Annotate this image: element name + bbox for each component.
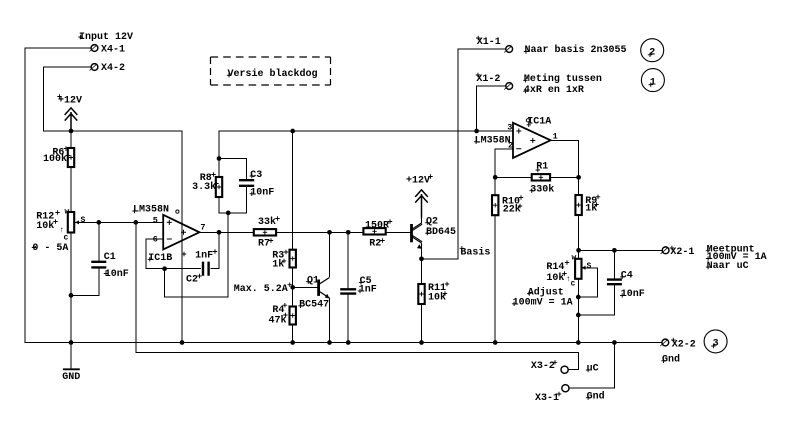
svg-text:Input 12V: Input 12V [79,32,133,43]
wire X4-2 to +12V rail [44,67,182,343]
svg-text:Naar uC: Naar uC [707,261,749,272]
capacitor C3 10nF [239,170,274,199]
transistor Q2 BD645 [412,217,457,249]
terminal X4-1 [90,45,126,56]
resistor R3 1k [272,250,296,271]
wire IC1A pin2 loop [495,149,513,177]
capacitor C1 10nF [91,252,128,280]
wire R11 branch [421,259,423,343]
op-amp IC1B LM358N [132,205,205,264]
dashed frame Versie blackdog [211,57,331,85]
wire R14 wiper loop [578,268,597,297]
svg-text:1k: 1k [272,259,284,271]
svg-text:Basis: Basis [460,247,490,259]
wire C5 branch [347,232,349,342]
capacitor C5 1nF [340,276,377,296]
svg-text:Adjust: Adjust [528,286,564,298]
svg-text:Meting tussen: Meting tussen [524,73,602,85]
svg-text:X4-1: X4-1 [101,45,125,56]
svg-text:330k: 330k [530,183,554,195]
svg-text:GND: GND [62,372,80,383]
wire R1 rail [495,176,578,178]
svg-text:c: c [571,280,576,289]
potentiometer R12 10k [36,208,85,243]
wire GND symbol stem [70,343,72,370]
wire R10 branch [494,177,496,342]
svg-text:10k: 10k [546,272,564,284]
svg-text:100k: 100k [43,153,67,165]
svg-text:X2-1: X2-1 [670,247,694,258]
svg-text:10k: 10k [36,220,54,232]
svg-text:Gnd: Gnd [587,390,605,402]
svg-text:IC1A: IC1A [527,116,551,127]
svg-text:10nF: 10nF [621,289,645,300]
resistor R1 330k [530,162,555,196]
svg-text:X3-2: X3-2 [531,361,555,372]
label Meting tussen 4xR en 1xR [523,73,602,96]
terminal X2-1 [661,246,695,258]
svg-text:R4: R4 [272,305,284,316]
label Basis [460,246,491,259]
op-amp IC1A LM358N [474,116,558,157]
wire R4 bottom [292,325,294,343]
wire Q1 emitter down [329,299,331,343]
svg-text:↑: ↑ [566,275,571,284]
capacitor C2 1nF [186,249,217,285]
wire R7 to R2 [276,231,363,233]
svg-text:3.3k: 3.3k [192,181,216,193]
resistor R9 1k [575,195,600,215]
svg-text:S: S [587,262,592,271]
svg-text:3: 3 [507,123,512,133]
svg-text:Versie blackdog: Versie blackdog [228,68,318,80]
wire R2 to Q2 base [386,231,411,233]
svg-text:C1: C1 [104,252,116,263]
label 0 - 5A [32,243,69,254]
label Input 12V [78,32,133,43]
label Adjust 100mV = 1A [512,286,573,308]
svg-text:10nF: 10nF [105,269,129,280]
svg-text:Q1: Q1 [307,275,319,286]
wire top sense rail [219,130,477,132]
terminal X2-2 [660,338,696,366]
terminal X1-1 [476,36,513,53]
svg-text:1nF: 1nF [195,251,213,262]
wire X1-2 to IC1A pin3 [477,86,513,131]
svg-text:10nF: 10nF [250,188,274,199]
svg-text:150R: 150R [365,221,389,232]
circled number 3 [704,330,727,353]
svg-text:7: 7 [200,223,205,233]
resistor R10 22k [492,195,523,215]
label Max. 5.2A [234,283,292,296]
svg-text:S: S [81,216,86,225]
ground symbol GND [62,369,80,383]
capacitor C4 10nF [607,271,645,301]
wire X3-1 to gnd rail [569,343,615,389]
power +12V supply symbol left [57,94,82,131]
circled number 2 [641,39,664,62]
terminal X3-1 [535,385,605,404]
wire C2 right lead to output [211,232,219,268]
svg-text:X1-1: X1-1 [477,37,501,48]
resistor R6 100k [43,146,74,167]
resistor R11 10k [418,282,449,304]
resistor R7 33k [254,216,280,249]
terminal X3-2 [531,360,599,375]
svg-text:R14: R14 [546,262,564,273]
wire IC1B output to R7 [199,231,253,233]
wire C4 branch [578,250,614,315]
potentiometer R14 10k [546,254,591,289]
svg-text:LM358N: LM358N [475,136,511,147]
svg-text:X1-2: X1-2 [476,74,500,85]
svg-text:R2: R2 [369,239,381,250]
svg-text:BC547: BC547 [299,300,329,311]
svg-text:5: 5 [153,216,158,226]
svg-text:Max. 5.2A: Max. 5.2A [234,284,288,295]
wire R3 sense branch [292,131,294,250]
terminal X1-2 [476,73,513,90]
svg-text:w: w [572,254,577,263]
svg-text:1: 1 [553,132,558,142]
wire X4-1 to left column [25,48,91,343]
svg-text:33k: 33k [258,216,276,228]
svg-text:LM358N: LM358N [133,205,169,216]
svg-text:X3-1: X3-1 [535,393,559,404]
svg-text:↑: ↑ [60,226,65,235]
label Meetpunt 100mV = 1A Naar uC [706,244,767,271]
wire IC1B pin6 loop [146,239,200,269]
transistor Q1 BC547 [298,275,329,310]
svg-text:22k: 22k [503,203,521,215]
power +12V supply symbol at Q2 [406,174,433,217]
wire feedback box lower [165,213,229,297]
wire C1 branch [71,222,99,295]
svg-text:100mV = 1A: 100mV = 1A [513,298,573,309]
svg-text:1nF: 1nF [359,285,377,296]
resistor R2 150R [363,219,392,249]
wire X2-1 line [579,249,663,251]
wire Q1 collector [329,232,331,276]
wire R14 branch [577,250,579,342]
wire IC1A output down [551,140,579,250]
svg-text:0 - 5A: 0 - 5A [32,243,68,254]
svg-text:X4-2: X4-2 [101,63,125,74]
terminal X4-2 [90,63,126,74]
wire uC line from pin5 node to X3-2 [136,222,579,369]
circled number 1 [641,69,664,92]
svg-text:Naar basis 2n3055: Naar basis 2n3055 [525,44,627,56]
svg-text:6: 6 [153,234,158,244]
svg-text:Gnd: Gnd [662,354,680,366]
svg-text:Q2: Q2 [426,217,438,228]
wire R8 C3 top node [219,131,247,213]
wire R12 wiper to IC1B pin 5 [75,221,163,223]
svg-text:+12V: +12V [58,96,82,107]
svg-text:R7: R7 [258,239,270,250]
svg-text:+12V: +12V [406,176,430,187]
resistor R8 3.3k [192,172,222,197]
wire R3 R4 Q1 base [293,268,318,307]
wire GND rail [25,342,662,344]
svg-text:BD645: BD645 [426,227,456,238]
label Naar basis 2n3055 [524,44,627,56]
wire Q2 emitter node to Basis and X1-1 [422,49,506,259]
wire R6 R12 chain [70,131,72,343]
svg-text:47k: 47k [269,314,287,326]
svg-text:IC1B: IC1B [148,253,172,264]
svg-text:4xR en 1xR: 4xR en 1xR [524,85,584,96]
svg-text:X2-2: X2-2 [672,339,696,350]
resistor R4 47k [269,303,296,326]
svg-text:w: w [65,208,70,217]
svg-text:C2: C2 [186,274,198,285]
